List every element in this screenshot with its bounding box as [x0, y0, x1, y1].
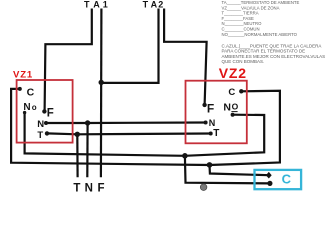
VZ2 terminal F [202, 102, 214, 116]
VZ2 terminal NO [223, 101, 238, 116]
svg-text:A: A [151, 0, 158, 9]
svg-text:T: T [143, 0, 149, 9]
note paragraph [222, 44, 326, 64]
svg-text:C: C [27, 87, 35, 99]
svg-text:A: A [93, 0, 100, 9]
VZ1 terminal C [18, 87, 35, 99]
ground screw symbol [200, 184, 207, 191]
svg-text:F: F [207, 102, 214, 116]
wire caldera upper from C junction [210, 165, 269, 175]
svg-text:N: N [209, 118, 216, 128]
VZ2 terminal N [204, 118, 216, 128]
wire neutro line VZ1 N to VZ2 N [46, 121, 206, 124]
wire tierra line VZ1 T to VZ2 T [47, 132, 211, 135]
svg-text:o: o [32, 103, 37, 112]
wire link fase to TA2 left [101, 9, 158, 83]
junction tierra drop [75, 132, 80, 137]
wire tierra drop to bottom T [76, 134, 78, 177]
svg-text:O: O [232, 102, 239, 112]
VZ2 terminal T [209, 128, 220, 139]
svg-text:VZ______VALVULA DE ZONA: VZ______VALVULA DE ZONA [222, 5, 280, 10]
caldera box [255, 170, 302, 189]
label TA1 [84, 0, 108, 9]
wire TA2 right to VZ2 F terminal [164, 9, 207, 106]
svg-text:N: N [223, 101, 231, 113]
VZ1 terminal T [37, 130, 49, 141]
svg-text:T: T [213, 128, 219, 139]
VZ2 terminal C [228, 87, 243, 98]
legend [222, 0, 300, 37]
svg-text:F________FASE: F________FASE [222, 16, 255, 21]
bottom label T N F [73, 182, 104, 194]
valve box VZ2 [186, 81, 247, 144]
svg-text:C________COMUN: C________COMUN [222, 27, 260, 32]
wire caldera lower from NO junction [185, 156, 270, 184]
svg-text:C: C [228, 87, 235, 98]
svg-text:QUE CON BOMBAS.: QUE CON BOMBAS. [222, 59, 265, 64]
junction fase TA2 [99, 80, 104, 85]
caldera lower wire end dot [267, 181, 272, 186]
svg-text:TA______TERMOSTATO DE AMBIENTE: TA______TERMOSTATO DE AMBIENTE [222, 0, 300, 5]
junction C caldera [207, 162, 213, 168]
svg-text:1: 1 [103, 0, 108, 9]
wire TA1 left to VZ1 F terminal [45, 9, 92, 112]
svg-text:N________NEUTRO: N________NEUTRO [222, 21, 263, 26]
caldera upper wire end diamond [266, 172, 272, 179]
junction NO caldera [182, 153, 188, 159]
svg-text:VZ1: VZ1 [13, 69, 33, 80]
svg-text:F: F [98, 182, 105, 194]
svg-text:T________TIERRA: T________TIERRA [222, 11, 259, 16]
VZ1 terminal NO [23, 102, 37, 114]
wire C net VZ1 C to VZ2 C [11, 89, 280, 165]
VZ1 terminal N [37, 119, 48, 130]
svg-text:C: C [282, 171, 292, 186]
wire NO net VZ1 NO to VZ2 NO [25, 113, 265, 156]
svg-text:N: N [85, 182, 93, 194]
svg-text:N: N [37, 119, 44, 130]
valve box VZ1 [17, 80, 73, 143]
svg-text:VZ2: VZ2 [219, 65, 247, 81]
svg-text:NO_______NORMALMENTE ABIERTO: NO_______NORMALMENTE ABIERTO [222, 32, 298, 37]
VZ1 terminal F [42, 108, 54, 120]
svg-text:T: T [73, 182, 80, 194]
junction neutro drop [85, 120, 90, 125]
wire TA1 right / fase vertical to bottom F [100, 9, 103, 178]
svg-text:2: 2 [158, 0, 163, 9]
wire neutro drop to bottom N [86, 123, 88, 177]
svg-text:F: F [47, 108, 54, 120]
svg-text:T: T [37, 130, 43, 141]
label TA2 [143, 0, 164, 9]
svg-text:T: T [84, 0, 90, 9]
